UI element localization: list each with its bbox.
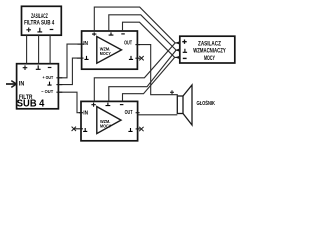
svg-text:WZMACNIACZY: WZMACNIACZY [193, 48, 226, 55]
svg-text:GŁOŚNIK: GŁOŚNIK [197, 100, 216, 107]
svg-text:− OUT: − OUT [41, 89, 53, 95]
svg-text:+ OUT: + OUT [43, 75, 54, 81]
svg-text:MOCY: MOCY [204, 55, 215, 62]
svg-text:MOCY: MOCY [100, 124, 112, 130]
svg-text:FILTRA SUB 4: FILTRA SUB 4 [24, 19, 55, 26]
svg-text:IN: IN [19, 81, 25, 88]
svg-text:SUB 4: SUB 4 [17, 99, 45, 110]
svg-text:MOCY: MOCY [100, 51, 112, 57]
svg-text:ZASILACZ: ZASILACZ [198, 40, 221, 47]
svg-text:OUT: OUT [125, 110, 133, 116]
svg-text:IN: IN [83, 41, 88, 47]
svg-text:IN: IN [83, 111, 88, 117]
svg-text:OUT: OUT [124, 41, 132, 47]
